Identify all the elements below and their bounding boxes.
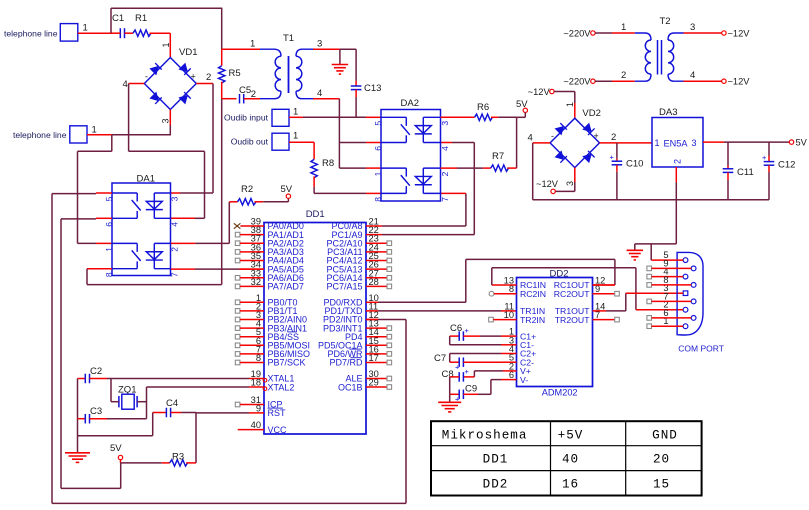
wire DA3 pin3 to 5V [703,138,808,148]
svg-text:C3: C3 [90,406,102,417]
microcontroller DD1 [264,209,366,434]
interface IC DD2 ADM202 [517,268,593,397]
DD1 pin 24 PC3/A11 [327,242,391,257]
resistor R6 [441,102,517,121]
PSU ground rail [533,199,769,201]
wire Oudib out to R8 [289,141,314,143]
COM pin 5 [651,250,688,262]
svg-text:R1: R1 [135,13,147,24]
wire VD1 pin3 stub [161,110,171,126]
DD1 pin 8 PB7/SCK [235,353,305,368]
power 5V bottom [110,443,123,463]
wire VD1 pin2 stub [196,72,213,84]
DD2 pin 4 C2+ [509,344,536,359]
DD1 pin 35 PA4/AD4 [235,251,304,266]
DD2 pin 3 C1- [509,335,534,350]
capacitor C2 [78,366,103,383]
connector telephone line 2 [13,125,97,144]
svg-text:5: 5 [373,121,383,126]
resistor R2 [229,184,263,205]
wire VD2 pin3 to ~12V [536,168,575,194]
DD2 pin8 NC circle [489,291,516,296]
optocoupler DA2 [373,98,450,202]
svg-text:5: 5 [104,196,114,201]
svg-text:4: 4 [440,146,450,151]
diode bridge VD1 [144,47,197,110]
wire T1 pin4 [313,88,339,99]
svg-text:5V: 5V [516,99,528,110]
svg-text:15: 15 [653,478,670,492]
ground at T1 pin3 [332,49,349,74]
svg-text:40: 40 [562,453,579,467]
svg-text:1: 1 [655,138,660,148]
DD1 pin 18 XTAL2 [249,378,294,393]
svg-text:C1: C1 [112,13,124,24]
svg-text:6: 6 [373,146,383,151]
svg-text:4: 4 [528,133,533,144]
COM pin 9 [647,258,696,270]
capacitor C3 [78,406,147,423]
svg-text:2: 2 [440,171,450,176]
DD2 pin 12 RC1OUT [554,276,606,291]
svg-text:C4: C4 [166,398,178,409]
wire R5 net vertical lower [221,99,223,285]
DD1 pin 12 PD2/INT0 [323,310,379,325]
svg-text:8: 8 [104,272,114,277]
wire tele2 branch down [111,135,113,152]
svg-text:+: + [455,363,460,372]
DD1 pin 13 PD3/INT1 [323,319,392,334]
DD1 pin 29 OC1B [338,378,392,393]
capacitor C8 [442,367,517,394]
svg-text:3: 3 [169,196,179,201]
DD1 pin 39 PA0/AD0 [234,217,304,232]
DD1 pin 32 PA7/AD7 [235,277,304,292]
wire to DA2 pin1 [339,167,366,169]
svg-text:VD2: VD2 [582,108,600,119]
resistor R5 [219,49,241,98]
svg-text:C8: C8 [442,369,454,380]
svg-text:10: 10 [504,310,514,320]
DD2 pin 14 TR1OUT [555,301,606,316]
svg-text:20: 20 [653,453,670,467]
capacitor C1 [111,13,133,38]
wire DD2 pin13 to COM pin2 [492,268,682,310]
svg-text:VCC: VCC [268,425,288,435]
power 5V at R6 [516,99,528,117]
svg-text:R2: R2 [241,184,253,195]
svg-text:~220V: ~220V [563,29,591,39]
wire RST junction down to R3 [195,413,197,463]
svg-text:6: 6 [104,222,114,227]
wire pin8 to R5 net [87,284,222,286]
DD1 pin 37 PA2/AD2 [235,234,304,249]
svg-text:COM PORT: COM PORT [678,343,724,353]
svg-text:1: 1 [104,247,114,252]
DD1 pin 11 PD1/TXD [324,301,378,316]
svg-text:C10: C10 [626,159,643,170]
wire R6/R7 junction vertical [516,117,518,168]
svg-text:2: 2 [169,247,179,252]
wire T1 pin3 to C13 [340,48,356,50]
svg-text:2: 2 [621,70,626,81]
wire DA1 pin5 stub [96,192,112,194]
svg-text:+: + [762,153,767,162]
wire T1 pin4 down [338,99,340,168]
svg-text:3: 3 [440,121,450,126]
svg-text:RST: RST [268,408,287,418]
svg-text:C12: C12 [778,160,795,171]
transformer T2 [635,16,684,81]
table Mikroshema [431,421,702,495]
capacitor C9 [450,380,517,404]
svg-text:DA3: DA3 [659,107,677,118]
svg-text:~12V: ~12V [528,87,551,97]
svg-text:32: 32 [251,277,261,287]
svg-text:18: 18 [251,378,261,388]
DD1 pin 38 PA1/AD1 [235,225,304,240]
wire T1 pin1 row [222,39,260,50]
wire DA1 pin8 stub [87,268,112,270]
svg-text:VD1: VD1 [179,47,197,58]
wire VD2 pin2 to DA3 [600,132,653,143]
wire DA1 pin6 rail [61,218,96,220]
svg-text:C13: C13 [364,83,381,94]
DD1 pin 14 PD4 [345,327,392,342]
svg-text:3: 3 [690,22,695,33]
wire top border horizontal [111,7,222,9]
optocoupler DA1 [104,174,179,278]
DD1 pin 27 PC6/A14 [326,268,391,283]
svg-text:C7: C7 [434,353,446,364]
COM pin 1 [647,316,688,328]
COM pin 2 [663,300,688,312]
svg-text:1: 1 [373,171,383,176]
svg-text:+: + [594,131,599,141]
DD1 pin 6 PB5/MOSI [235,336,310,351]
DD2 pin 10 TR2IN [504,310,545,325]
wire T1 pin3 [313,39,340,50]
svg-text:telephone line: telephone line [13,130,67,140]
svg-text:9: 9 [663,258,668,268]
svg-text:+: + [191,72,196,82]
DD1 pin 26 PC5/A13 [326,260,391,275]
wire DD1 pin11 TXD to DD2 pin11 [378,310,501,312]
svg-text:1: 1 [293,131,298,142]
DD1 pin 9 RST [249,403,286,418]
wire DD1 pin22 to DA2 pin4 [382,234,474,236]
DD1 pin 16 PD6/WR [327,344,391,359]
ground vertical left [77,379,79,453]
svg-text:R7: R7 [492,151,504,162]
wire DA1 pin5 rail [52,193,96,195]
svg-text:~12V: ~12V [728,29,751,39]
wire DD1 pin10 RXD to DD2 pin12 [378,301,466,303]
voltage regulator DA3 EN5A [652,107,703,167]
ground at COM port [627,244,644,260]
svg-text:TR2OUT: TR2OUT [555,315,590,325]
DD1 pin 10 PD0/RXD [323,293,378,308]
svg-text:1: 1 [83,23,88,34]
wire VD1 pin3 to tele2 net [169,125,171,135]
svg-text:C6: C6 [450,323,462,334]
DD2 pin 9 RC2OUT [554,284,600,299]
svg-text:6: 6 [663,308,668,318]
wire R8 bottom to DA2 pin8 [313,176,315,187]
wire R1 to VD1 pin1 [161,33,171,57]
wire tele2 stub [87,134,112,136]
DD1 pin 23 PC2/A10 [326,234,391,249]
terminal ~12V to VD2 pin1 [528,87,575,118]
svg-text:+: + [465,367,470,376]
DD1 pin 2 PB1/T1 [235,301,297,316]
svg-text:40: 40 [251,420,261,430]
svg-text:T2: T2 [660,16,671,27]
wire DD2 pin12 stub [593,284,615,286]
power 5V at R2 [263,184,293,202]
resistor R3 [121,452,197,467]
DD2 pin 13 RC1IN [504,276,546,291]
DD1 pin 31 ICP [235,395,282,410]
resistor R7 [441,151,517,171]
svg-text:7: 7 [440,197,450,202]
wire VD1 pin4 stub [123,79,145,90]
svg-text:+5V: +5V [558,428,584,442]
wire top border down to T1 pin1 [221,8,223,49]
wire tele2 to VD1 pin3 [112,134,171,136]
terminal ~220V top [563,22,634,39]
COM pin 3 [663,283,687,295]
wire branch to DA2 pin6 [339,142,366,144]
capacitor C10 [610,143,644,200]
svg-text:4: 4 [317,88,322,99]
svg-text:R8: R8 [322,158,334,169]
svg-text:PA7/AD7: PA7/AD7 [268,282,304,292]
svg-text:7: 7 [663,291,668,301]
wire DD2 pin14 to COM pin3 [593,293,680,311]
DD1 pin 30 ALE [345,369,391,384]
svg-text:EN5A: EN5A [664,139,689,149]
DD1 pin 25 PC4/A12 [326,251,391,266]
svg-text:C5: C5 [239,85,251,96]
capacitor C13 [351,49,382,117]
COM pin 6 [647,308,696,320]
COM pin 8 [647,275,696,287]
DD1 pin 21 PC0/A8 [331,217,382,232]
svg-text:1: 1 [293,107,298,118]
svg-text:5V: 5V [796,138,808,148]
wire VD1 pin4 jog right [129,150,205,152]
capacitor C12 [762,142,795,200]
svg-text:3: 3 [161,118,171,123]
wire ZQ1 right to XTAL2/C3 [146,387,148,419]
wire DD1 pin19 XTAL1 net [107,378,249,380]
svg-text:~12V: ~12V [728,77,751,87]
wire C4 left to ground [152,413,154,436]
DD1 pin 19 XTAL1 [249,369,294,384]
svg-text:~220V: ~220V [563,77,591,87]
wire DD1 pin9 RST net [196,412,249,414]
wire down to DA1 pin1 [77,151,79,243]
svg-text:4: 4 [690,70,695,81]
svg-text:28: 28 [369,277,379,287]
svg-text:R5: R5 [229,68,241,79]
svg-text:2: 2 [673,159,683,164]
svg-text:DD1: DD1 [483,453,509,467]
DD2 pin10 NC square [489,317,517,322]
resistor R1 [133,13,170,36]
svg-text:C2: C2 [90,366,102,377]
terminal ~220V bottom [563,70,634,87]
svg-text:2: 2 [611,132,616,143]
svg-text:OC1B: OC1B [338,382,363,392]
DD2 pin 11 TR1IN [504,301,545,316]
svg-text:5V: 5V [281,184,293,195]
svg-text:16: 16 [562,478,579,492]
DD1 pin 34 PA5/AD5 [240,260,304,275]
svg-text:2: 2 [251,89,256,100]
COM pin 4 [647,267,688,279]
wire COM pin5 to ground [635,244,677,260]
connector COM PORT DB9 [677,252,724,353]
DD2 pin 7 TR2OUT [555,310,600,325]
DD1 pin 28 PC7/A15 [326,277,391,292]
capacitor C5 [239,85,260,103]
capacitor C4 [153,398,196,417]
svg-text:Oudib input: Oudib input [224,113,269,123]
resistor R8 [311,158,334,178]
crystal ZQ1 [111,385,147,410]
DD2 pin 2 V+ [509,361,531,376]
svg-text:Oudib out: Oudib out [231,137,269,147]
wire DA1 pin6 stub [96,217,112,219]
svg-text:PB7/SCK: PB7/SCK [268,358,306,368]
svg-text:17: 17 [369,353,379,363]
svg-text:+: + [465,326,470,335]
wire VD1 pin2 down to DA1 pin3 [212,84,214,194]
svg-text:C9: C9 [465,384,477,395]
DD1 pin 15 PD5/OC1A [318,336,392,351]
svg-text:8: 8 [256,353,261,363]
wire DA1 pin7 to DD1 pin34 [171,268,195,270]
wire COM ground to PSU rail [675,200,677,244]
svg-text:3: 3 [692,138,697,148]
wire VD1-pin4 net down to DA1 pin4 [204,151,206,218]
DD2 pin 1 C1+ [509,327,536,342]
DD1 pin 3 PB2/AIN0 [235,310,307,325]
transformer T1 [260,33,313,99]
wire DD1 pin21 to DA2 pin7 [382,225,466,227]
ground at C8/C9 [438,394,461,412]
svg-text:PC7/A15: PC7/A15 [326,282,362,292]
svg-text:1: 1 [565,102,575,107]
svg-text:PD7/RD: PD7/RD [329,358,363,368]
svg-text:3: 3 [565,181,575,186]
terminal ~12V bottom right [684,70,751,87]
DD1 pin 33 PA6/AD6 [235,268,304,283]
svg-text:telephone line: telephone line [4,29,58,39]
svg-text:7: 7 [169,272,179,277]
svg-text:V-: V- [520,375,528,385]
wire DA3 pin2 down [675,167,677,200]
svg-text:2: 2 [206,72,211,83]
wire rail to 5V node [61,487,121,489]
COM pin 7 [647,291,696,303]
svg-text:DD1: DD1 [306,209,325,220]
svg-text:8: 8 [373,197,383,202]
svg-text:1: 1 [92,125,97,136]
svg-text:1: 1 [161,42,171,47]
svg-text:5V: 5V [110,443,122,454]
svg-text:RC2OUT: RC2OUT [554,289,590,299]
svg-text:DA2: DA2 [401,98,419,109]
svg-text:C11: C11 [737,167,754,178]
wire DA1 pin8 jog down [86,269,88,285]
connector Oudib out [231,131,299,151]
svg-text:TR2IN: TR2IN [520,315,545,325]
svg-text:9: 9 [256,403,261,413]
diode bridge VD2 [550,108,601,168]
svg-text:ADM202: ADM202 [542,387,578,397]
svg-text:4: 4 [169,222,179,227]
wire VD1 pin4 down [128,84,130,152]
svg-text:-: - [551,131,554,141]
svg-text:1: 1 [250,39,255,50]
DD1 pin 7 PB6/MISO [235,344,310,359]
wire DA1 pin2 to R2 [171,242,196,244]
svg-text:29: 29 [369,378,379,388]
wire Oudib input to DA2 pin5 [289,116,303,118]
svg-text:~12V: ~12V [536,179,559,189]
svg-text:3: 3 [317,39,322,50]
capacitor C6 [450,323,517,345]
wire R5 bottom / C5 row [222,98,237,100]
DD1 pin 40 VCC [238,420,287,435]
wire DD1 pin18 XTAL2 net [147,386,250,388]
DD2 pin9 NC [593,291,620,296]
DD1 pin 36 PA3/AD3 [235,242,304,257]
wire top border vertical at x=111 [110,8,112,33]
svg-text:4: 4 [123,79,128,90]
svg-text:-: - [145,72,148,82]
DD1 pin 4 PB3/AIN1 [235,319,307,334]
capacitor C11 [723,142,754,200]
svg-text:DD2: DD2 [483,478,509,492]
connector Oudib input [224,107,298,127]
svg-text:+: + [610,153,615,162]
svg-text:8: 8 [663,275,668,285]
wire ZQ1 left up to XTAL1 [110,379,112,402]
DD2 pin7 NC [593,317,620,322]
svg-text:XTAL2: XTAL2 [268,382,295,392]
DD1 pin 17 PD7/RD [329,353,391,368]
DD2 pin 5 C2- [509,353,534,368]
svg-text:1: 1 [621,22,626,33]
connector telephone line 1 [4,23,88,42]
wire tele1 to C1 junction [78,32,112,34]
svg-text:GND: GND [652,428,678,442]
wire VD2 pin4 [528,133,551,200]
svg-text:R6: R6 [477,102,489,113]
svg-text:T1: T1 [283,33,294,44]
DD2 pin 6 V- [509,370,528,385]
svg-text:Mikroshema: Mikroshema [442,428,528,442]
DD2 pin 8 RC2IN [509,284,546,299]
terminal ~12V top right [684,22,751,39]
wire bottom rail to DD1 pin12 [52,502,406,504]
svg-text:R3: R3 [172,452,184,463]
svg-text:RC2IN: RC2IN [520,289,546,299]
